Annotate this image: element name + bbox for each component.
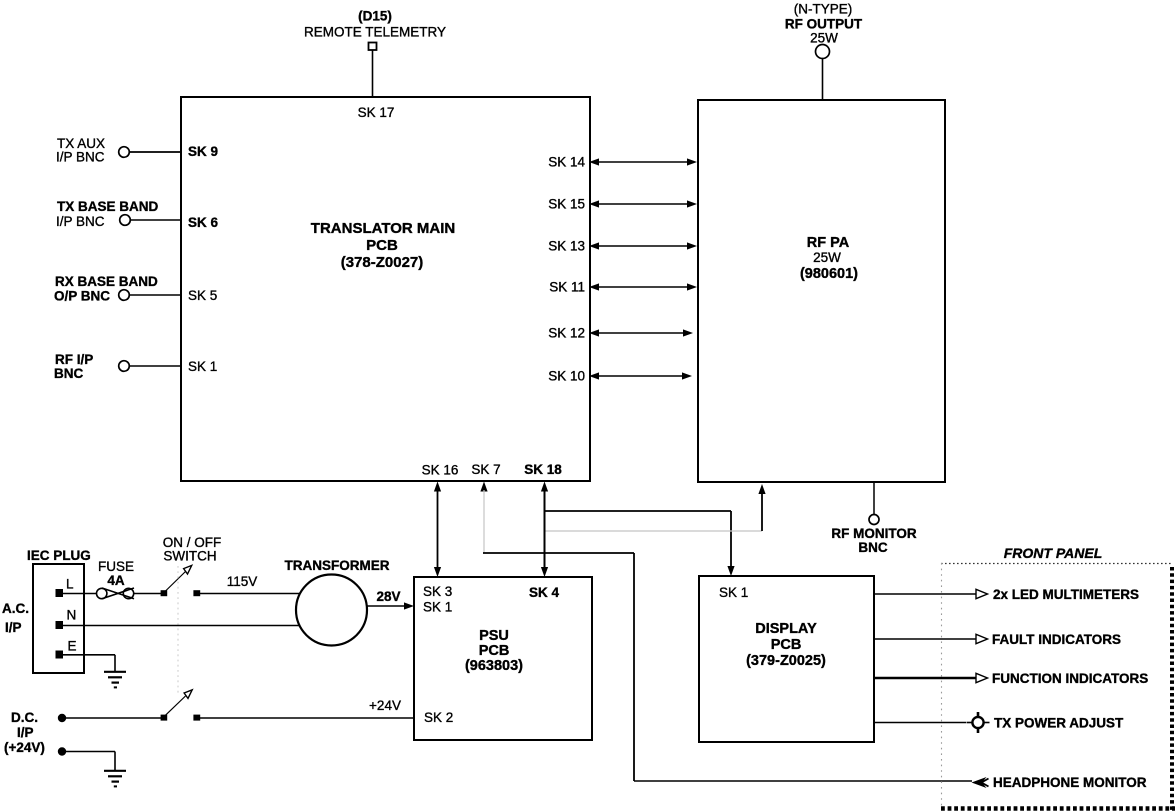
- wire switch to transformer: [200, 593, 301, 595]
- connector D15 square: [369, 43, 377, 51]
- svg-text:SK 5: SK 5: [188, 288, 217, 303]
- label RF PA 25W (980601): [800, 235, 858, 282]
- wire fuse to switch: [134, 593, 161, 595]
- svg-text:SK 6: SK 6: [188, 215, 219, 230]
- svg-text:FUSE: FUSE: [98, 559, 134, 574]
- label FUSE 4A: [98, 559, 134, 588]
- wire TX BASE BAND to SK6: [131, 219, 182, 221]
- svg-text:I/P BNC: I/P BNC: [56, 214, 105, 229]
- label RF MONITOR BNC: [831, 526, 916, 555]
- wire DISPLAY to TX power adjust: [874, 722, 966, 724]
- ground earth AC: [104, 672, 126, 688]
- label ON / OFF SWITCH: [163, 535, 222, 564]
- svg-text:SK 9: SK 9: [188, 144, 218, 159]
- label (N-TYPE) RF OUTPUT 25W: [785, 2, 863, 46]
- wire N to transformer: [63, 625, 300, 627]
- headphone monitor arrow: [972, 777, 989, 788]
- svg-text:A.C.: A.C.: [2, 601, 29, 616]
- svg-text:SK 17: SK 17: [358, 105, 395, 120]
- svg-text:(379-Z0025): (379-Z0025): [746, 653, 826, 669]
- svg-text:PCB: PCB: [366, 237, 398, 254]
- svg-text:FAULT INDICATORS: FAULT INDICATORS: [992, 632, 1121, 647]
- pin E: [56, 639, 77, 659]
- svg-text:25W: 25W: [813, 250, 841, 265]
- label TX BASE BAND I/P BNC: [56, 199, 159, 229]
- svg-text:2x LED MULTIMETERS: 2x LED MULTIMETERS: [993, 587, 1139, 602]
- svg-text:25W: 25W: [810, 31, 838, 46]
- connector RF MONITOR BNC circle: [869, 515, 879, 525]
- wire RF PA to RF MONITOR BNC: [873, 482, 875, 515]
- connector N-type output circle: [816, 45, 830, 59]
- label TRANSLATOR MAIN PCB (378-Z0027): [311, 220, 455, 271]
- connector RF I/P BNC circle: [119, 361, 130, 372]
- svg-text:SK 3: SK 3: [423, 584, 452, 599]
- wire branch to RF PA bottom: [546, 484, 766, 531]
- ground earth DC: [104, 771, 126, 787]
- svg-text:4A: 4A: [107, 573, 125, 588]
- wire SK15 to RF PA: [589, 200, 697, 207]
- svg-text:TRANSLATOR MAIN: TRANSLATOR MAIN: [311, 220, 455, 237]
- svg-text:PSU: PSU: [479, 628, 509, 644]
- svg-text:REMOTE TELEMETRY: REMOTE TELEMETRY: [304, 25, 446, 40]
- node DC input return: [58, 747, 66, 755]
- wire SK13 to RF PA: [589, 242, 697, 249]
- wire transformer to PSU SK1: [366, 602, 414, 609]
- svg-text:RF MONITOR: RF MONITOR: [831, 526, 916, 541]
- svg-text:SK 7: SK 7: [471, 462, 500, 477]
- label RF I/P BNC: [54, 352, 93, 381]
- label PSU PCB (963803): [465, 628, 523, 674]
- svg-text:+24V: +24V: [369, 698, 401, 713]
- svg-text:TX POWER ADJUST: TX POWER ADJUST: [994, 716, 1124, 731]
- svg-text:RX BASE BAND: RX BASE BAND: [55, 274, 158, 289]
- svg-text:RF I/P: RF I/P: [55, 352, 93, 367]
- wire SK18 branch to DISPLAY SK1: [545, 511, 735, 576]
- fuse F1: [97, 588, 135, 599]
- svg-text:HEADPHONE MONITOR: HEADPHONE MONITOR: [993, 775, 1147, 790]
- switch S1 pole B: [161, 690, 201, 721]
- wire switch to PSU SK2: [200, 717, 414, 719]
- pin N: [56, 608, 77, 630]
- svg-text:SK 4: SK 4: [529, 585, 560, 600]
- wire RX BASE BAND to SK5: [130, 294, 182, 296]
- svg-text:TRANSFORMER: TRANSFORMER: [285, 558, 390, 573]
- svg-text:PCB: PCB: [479, 643, 510, 659]
- label DISPLAY PCB (379-Z0025): [746, 621, 826, 669]
- wire DISPLAY to fault indicators: [874, 634, 988, 643]
- connector TX BASE BAND BNC circle: [120, 215, 131, 226]
- svg-text:SK 13: SK 13: [548, 239, 585, 254]
- svg-text:FUNCTION INDICATORS: FUNCTION INDICATORS: [992, 671, 1148, 686]
- svg-text:SK 14: SK 14: [548, 155, 585, 170]
- wire DISPLAY to function indicators: [874, 673, 988, 682]
- wire SK12 to RF PA: [589, 329, 693, 336]
- svg-text:E: E: [68, 639, 77, 654]
- wire SK10 to RF PA: [589, 372, 692, 379]
- svg-text:L: L: [66, 577, 74, 592]
- label A.C. I/P: [2, 601, 29, 635]
- block TRANSLATOR MAIN PCB U1: [181, 97, 590, 481]
- svg-text:FRONT PANEL: FRONT PANEL: [1004, 545, 1103, 561]
- wire D15 to SK17: [372, 50, 374, 97]
- svg-text:PCB: PCB: [771, 637, 802, 653]
- wire SK7 to headphone monitor: [480, 482, 972, 782]
- svg-text:I/P BNC: I/P BNC: [56, 150, 105, 165]
- label (D15) REMOTE TELEMETRY: [304, 9, 446, 40]
- front panel border dashed right: [1170, 567, 1174, 812]
- svg-text:D.C.: D.C.: [11, 710, 38, 725]
- label TX AUX I/P BNC: [56, 136, 105, 165]
- wire SK11 to RF PA: [589, 283, 697, 290]
- svg-text:SK 10: SK 10: [548, 369, 585, 384]
- svg-text:SK 1: SK 1: [423, 600, 452, 615]
- wire E to ground: [63, 655, 115, 671]
- svg-text:115V: 115V: [227, 574, 258, 589]
- wire DISPLAY to LED multimeters: [874, 589, 988, 598]
- svg-text:TX BASE BAND: TX BASE BAND: [57, 199, 159, 214]
- svg-text:(378-Z0027): (378-Z0027): [341, 254, 424, 271]
- svg-text:(N-TYPE): (N-TYPE): [794, 2, 853, 17]
- front panel border dashed bottom: [941, 806, 1175, 811]
- front panel boundary dotted left: [941, 563, 943, 808]
- block DISPLAY PCB: [699, 576, 874, 742]
- label D.C. I/P (+24V): [4, 710, 45, 755]
- node DC input +: [58, 714, 66, 722]
- svg-text:SK 15: SK 15: [548, 197, 585, 212]
- connector RX BASE BAND BNC circle: [119, 290, 130, 301]
- svg-text:SK 11: SK 11: [549, 280, 585, 295]
- svg-text:SK 16: SK 16: [422, 463, 459, 478]
- wire RF I/P to SK1: [130, 365, 182, 367]
- svg-text:I/P: I/P: [5, 620, 22, 635]
- svg-text:DISPLAY: DISPLAY: [755, 621, 817, 637]
- svg-text:IEC PLUG: IEC PLUG: [27, 548, 91, 563]
- wire L to fuse: [63, 593, 97, 595]
- block RF PA 25W: [698, 100, 945, 482]
- svg-text:SK 1: SK 1: [188, 359, 217, 374]
- svg-text:N: N: [67, 608, 77, 623]
- svg-text:28V: 28V: [376, 589, 400, 604]
- block PSU PCB: [414, 577, 592, 740]
- switch S1 pole A: [161, 565, 201, 596]
- switch linkage dashed: [177, 566, 179, 694]
- svg-text:(D15): (D15): [358, 9, 392, 24]
- wire TX AUX to SK9: [130, 151, 182, 153]
- wire SK16 to PSU SK3: [434, 482, 441, 578]
- wire DC to switch pole B: [62, 717, 161, 719]
- wire SK14 to RF PA: [589, 158, 697, 165]
- wire N-type to RF PA: [822, 59, 824, 101]
- svg-text:BNC: BNC: [858, 540, 887, 555]
- svg-text:SWITCH: SWITCH: [163, 549, 216, 564]
- svg-text:RF OUTPUT: RF OUTPUT: [785, 17, 863, 32]
- transformer T1: [296, 575, 367, 646]
- potentiometer TX POWER ADJUST icon: [967, 712, 990, 733]
- svg-text:O/P BNC: O/P BNC: [54, 289, 110, 304]
- svg-text:BNC: BNC: [54, 366, 83, 381]
- svg-text:SK 1: SK 1: [719, 585, 748, 600]
- connector IEC plug body: [33, 564, 84, 673]
- front panel boundary dotted top: [941, 563, 1173, 565]
- wire SK18 to PSU SK4: [541, 482, 548, 578]
- svg-text:RF PA: RF PA: [807, 235, 850, 251]
- pin L: [56, 577, 75, 598]
- svg-text:SK 12: SK 12: [548, 326, 585, 341]
- svg-text:SK 2: SK 2: [424, 710, 453, 725]
- svg-text:(963803): (963803): [465, 658, 523, 674]
- svg-text:(+24V): (+24V): [4, 740, 45, 755]
- svg-text:(980601): (980601): [800, 266, 858, 282]
- wire DC return to ground: [62, 752, 115, 771]
- svg-text:I/P: I/P: [17, 725, 34, 740]
- svg-text:SK 18: SK 18: [524, 462, 562, 477]
- connector TX AUX BNC circle: [119, 147, 130, 158]
- label RX BASE BAND O/P BNC: [54, 274, 158, 304]
